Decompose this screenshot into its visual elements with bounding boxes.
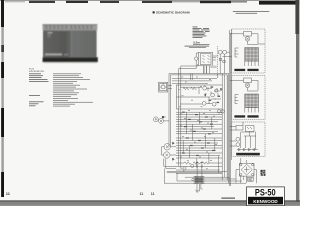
wire relay to pcb (204, 66, 210, 74)
relay RL1 (199, 52, 213, 66)
inner control rect (176, 85, 222, 109)
lower rows (176, 138, 222, 158)
product photo: top face (43, 24, 98, 30)
resistor row (184, 162, 209, 164)
svg-text:3.2m: 3.2m (193, 41, 200, 45)
protection unit X3 (232, 122, 265, 157)
ac run wires (179, 66, 223, 169)
svg-text:KENWOOD: KENWOOD (253, 199, 278, 204)
logo marks (48, 32, 53, 33)
svg-text:11: 11 (140, 192, 144, 196)
footer text (221, 197, 235, 199)
scanner right edge (296, 0, 299, 206)
scanner top edge (0, 0, 300, 1)
mid rows (176, 112, 222, 134)
cluster wires (176, 85, 221, 104)
mains dashed line (217, 46, 219, 73)
PS-50 logo box (247, 187, 285, 206)
power switch S1 (153, 116, 169, 123)
connector CN1 (192, 176, 204, 184)
parts list text block (193, 27, 210, 38)
bottom bus wires (164, 166, 246, 183)
header (153, 11, 155, 13)
svg-text:SCHEMATIC DIAGRAM: SCHEMATIC DIAGRAM (156, 11, 190, 15)
svg-text:SPECIFICATIONS: SPECIFICATIONS (29, 70, 45, 73)
label strip (210, 66, 216, 68)
spec text block (29, 68, 45, 73)
scanner bottom band (0, 200, 300, 201)
part label box (248, 177, 254, 181)
upper rows (172, 78, 217, 83)
transistor cluster (202, 86, 224, 113)
wire top bus (213, 52, 232, 60)
svg-text:11: 11 (151, 192, 155, 196)
ac socket J1 (159, 82, 168, 92)
main pcb outline (169, 74, 229, 184)
mid row parts (182, 112, 213, 135)
pass transistors Q1 Q2 (162, 142, 177, 160)
label specks (178, 77, 218, 169)
regulator unit X2 (232, 76, 265, 120)
inner column wires (183, 75, 224, 177)
small parts upper (205, 86, 222, 103)
top-right note (233, 11, 269, 14)
pcb lower-left rails (164, 159, 227, 184)
right vertical bundle (230, 29, 232, 186)
svg-text:PS-50: PS-50 (255, 187, 276, 198)
capacitor C01 (218, 50, 226, 73)
ground (195, 184, 202, 193)
base (43, 57, 98, 62)
fuse F1 (179, 53, 199, 74)
bridge rectifier D01 (236, 158, 257, 183)
stamp (260, 170, 265, 176)
capacitors above connector (191, 161, 204, 176)
regulator unit X1 (232, 29, 265, 73)
front bottom label (45, 53, 62, 55)
product photo: front face (43, 30, 97, 57)
cord note line (185, 45, 210, 48)
wire socket-pcb (168, 86, 172, 89)
scanner left edge (1, 0, 4, 27)
